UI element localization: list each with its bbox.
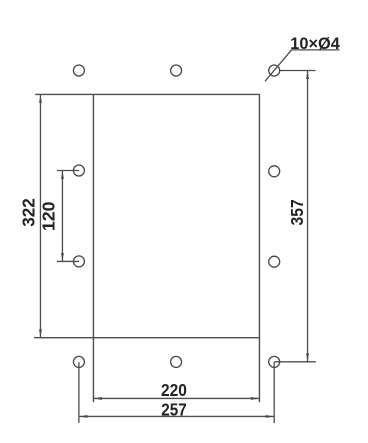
svg-text:257: 257 [161, 399, 187, 419]
svg-text:357: 357 [287, 199, 307, 225]
svg-text:220: 220 [161, 380, 187, 400]
svg-text:120: 120 [39, 202, 59, 232]
svg-text:10×Ø4: 10×Ø4 [290, 34, 340, 53]
svg-text:322: 322 [19, 198, 39, 227]
